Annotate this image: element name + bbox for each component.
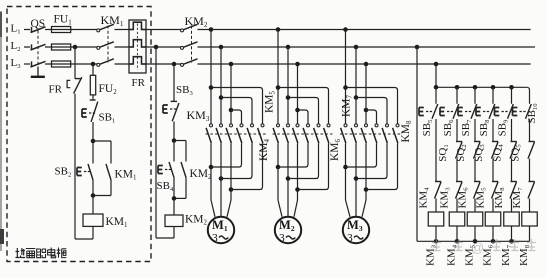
wire coil KM4 to bus [456, 226, 458, 241]
wire rail to SB8 [492, 87, 494, 104]
interlock contact KM4 (NC) [435, 182, 442, 199]
wire node D to KM2 coil [173, 198, 175, 215]
wire col5 to col2 group 1 [221, 143, 252, 178]
node group 3 L3 crossover [364, 108, 369, 113]
label KM4 (coil) [446, 244, 459, 266]
label SB2 [55, 166, 72, 179]
label L3 [11, 57, 22, 70]
fuse FU1 pole L1 [52, 27, 71, 33]
label FR (contact) [49, 84, 63, 96]
node L3 tap x297.5 [295, 62, 300, 67]
contactor KM4 main contact pole (col 6 group 1) [258, 124, 264, 143]
contactor KM6 main contact pole (col 6 group 2) [324, 124, 330, 143]
coil KM8 [522, 212, 538, 226]
contactor KM7 main contact pole (col 1 group 3) [341, 124, 347, 143]
label KM3 (interlock) [439, 187, 452, 209]
wire aux branch top [93, 141, 111, 164]
KM2 linkage (dashed) [191, 26, 193, 63]
contactor KM8 main contact pole (col 6 group 3) [393, 124, 399, 143]
label KM5 (group 2 fwd) [264, 90, 277, 113]
limit switch SQ5 (NC) [528, 142, 535, 159]
wire interlock to coil KM4 [456, 199, 458, 213]
node rail x436 [434, 85, 439, 90]
coil KM2 [165, 215, 183, 227]
wire KM2 aux branch bottom [174, 178, 186, 199]
disconnector QS pole L2 [31, 44, 46, 50]
wire interlock to coil KM6 [492, 199, 494, 213]
contactor KM5 main contact pole (col 3 group 2) [293, 124, 299, 143]
label SQ4 [492, 144, 505, 162]
label KM5 (interlock) [475, 187, 488, 209]
wire SQ1 to interlock [456, 159, 458, 182]
node L3 tap x366 [364, 62, 369, 67]
label SB1 [99, 112, 116, 125]
wire SB2 to node B [92, 180, 94, 196]
wire SB10 to SQ5 [529, 119, 531, 142]
node group 2 L1 crossover [276, 85, 281, 90]
coil KM5 [467, 212, 483, 226]
wire crossover L3 to col4 group 2 [298, 110, 309, 124]
pushbutton SB8 (NO) [476, 104, 495, 119]
node L2 tap x75 [73, 45, 78, 50]
contactor KM3 main contact pole (col 3 group 1) [226, 124, 232, 143]
label KM1 (main contacts) [101, 13, 124, 28]
node rail x511.5 [509, 85, 514, 90]
node L1 tap x278 [276, 27, 281, 32]
wire SB3 to node C [173, 122, 175, 141]
wire motor lead U group 1 [211, 200, 215, 217]
wire col1 down group 3 [345, 143, 347, 200]
svg-text:@: @ [471, 240, 484, 255]
pushbutton SB6 (NO) [440, 104, 459, 119]
wire col3 down group 1 [230, 143, 232, 200]
wire SB5 to interlock [435, 119, 437, 182]
wire coil KM6 to bus [492, 226, 494, 241]
pushbutton SB3 (stop, NC) [163, 101, 179, 121]
wire motor lead V group 3 [355, 200, 357, 217]
wire L1 feed group 1 [210, 30, 212, 125]
label QS [31, 18, 46, 30]
node rail x475 [473, 85, 478, 90]
node B (coil top) [91, 193, 96, 198]
wire phase L3 bus [24, 63, 531, 65]
wire interlock to coil KM5 [474, 199, 476, 213]
wire col3 down group 3 [365, 143, 367, 200]
label FR (heater) [132, 77, 146, 89]
wire control rail (top right) [436, 87, 530, 104]
wire crossover L3 to col4 group 1 [231, 110, 242, 124]
wire L2 feed group 3 [355, 47, 357, 124]
wire phase L2 bus [24, 46, 535, 48]
fuse FU1 pole L3 [52, 61, 71, 67]
contactor KM8 main contact pole (col 2 group 3) [351, 124, 357, 143]
node L3 tap x231 [229, 62, 234, 67]
FR NC contact (overload) [67, 77, 82, 93]
wire L3 feed group 3 [365, 64, 367, 124]
node group 1 L1 crossover [209, 85, 214, 90]
wire col3 down group 2 [297, 143, 299, 200]
pushbutton SB1 (stop, NC) [82, 100, 98, 122]
wire motor lead U group 2 [278, 200, 282, 217]
label SB6 [442, 119, 455, 136]
node group 3 L1 crossover [343, 85, 348, 90]
wire coil KM8 to bus [529, 226, 531, 241]
label SB4 [157, 180, 174, 193]
motor M1 (3-phase) [208, 217, 234, 245]
wire col2 down group 2 [287, 143, 289, 200]
wire L1 feed group 3 [345, 30, 347, 125]
wire rail to SB9 [511, 87, 513, 104]
watermark 知乎 @ (light gray) [432, 239, 536, 255]
wire col4 to col1 group 1 [211, 143, 242, 167]
contactor KM1 main contact L1 [97, 24, 114, 32]
coil KM3 [428, 212, 444, 226]
limit switch SQ4 (NC) [510, 142, 517, 159]
interlock contact KM7 (NC) [528, 182, 535, 199]
node bottom bus x493 [491, 239, 496, 244]
node bottom bus x511.5 [509, 239, 514, 244]
wire crossover L2 to col5 group 3 [356, 98, 387, 125]
node merge V group 3 [354, 176, 359, 181]
label SB10 [526, 103, 539, 124]
coil KM7 [504, 212, 520, 226]
text 地面配电柜 (cabinet name) [16, 248, 67, 258]
label KM1 (coil) [106, 216, 129, 229]
contactor KM6 main contact pole (col 2 group 2) [283, 124, 289, 143]
node merge W group 2 [295, 187, 300, 192]
wire aux branch bottom [93, 180, 111, 196]
contactor KM8 main contact pole (col 4 group 3) [372, 124, 378, 143]
label SB5 [421, 119, 434, 136]
wire col1 down group 2 [277, 143, 279, 200]
wire L3 feed group 1 [230, 64, 232, 124]
label KM6 (group 2 rev) [329, 138, 342, 161]
label KM8 (coil) [518, 244, 531, 266]
node rail x493 [491, 85, 496, 90]
wire col6 to col3 group 3 [366, 143, 398, 189]
wire crossover L1 to col6 group 1 [211, 88, 263, 125]
node L2 tap x156 [154, 45, 159, 50]
node L1 tap x211 [209, 27, 214, 32]
wire crossover L2 to col5 group 2 [288, 98, 319, 125]
wire KM2 coil to left rail [156, 227, 174, 239]
motor M2 (3-phase) [275, 217, 301, 245]
contactor KM5 main contact pole (col 1 group 2) [273, 124, 279, 143]
label KM5 (coil) [464, 244, 477, 266]
coil KM6 [485, 212, 501, 226]
interlock contact KM5 (NC) [492, 182, 499, 199]
contactor KM2 main contact L3 [181, 59, 198, 67]
wire L2 to FR contact [74, 47, 76, 79]
wire L2 feed group 2 [287, 47, 289, 124]
label KM8 (group 3 rev) [400, 120, 413, 143]
label FU1 [54, 14, 73, 27]
contactor KM7 main contact pole (col 3 group 3) [361, 124, 367, 143]
node L3 tap x93 [91, 62, 96, 67]
node merge U group 2 [276, 165, 281, 170]
QS linkage (dashed) [37, 31, 39, 67]
node C (SB4/KM2aux split) [172, 138, 177, 143]
label KM2 (main contacts) [185, 14, 208, 29]
wire col4 to col1 group 2 [278, 143, 308, 167]
wire col1 down group 1 [210, 143, 212, 200]
wire col5 to col2 group 2 [288, 143, 319, 178]
label SB9 [497, 119, 510, 136]
label KM3 (group 1 fwd) [187, 108, 210, 123]
label L1 [11, 23, 21, 36]
pushbutton SB4 (start, NO) [158, 141, 174, 178]
wire L2 left rail (KM2 circuit) [155, 47, 157, 238]
contactor KM1 main contact L2 [97, 42, 114, 50]
wire rail to SB6 [456, 87, 458, 104]
node bottom bus x457 [455, 239, 460, 244]
contactor KM3 main contact pole (col 1 group 1) [206, 124, 212, 143]
disconnector QS pole L3 [31, 61, 46, 67]
wire SB7 to SQ2 [474, 119, 476, 142]
node group 3 L2 crossover [354, 95, 359, 100]
node L1 tap x345.5 [343, 27, 348, 32]
node merge U group 1 [209, 165, 214, 170]
svg-text:FR: FR [132, 77, 146, 89]
wire coil KM7 to bus [511, 226, 513, 241]
node L2 tap x221 [219, 45, 224, 50]
label KM2 (coil) [185, 214, 208, 227]
coil KM4 [449, 212, 465, 226]
label KM8 (interlock) [493, 187, 506, 209]
pushbutton SB2 (start, NO) [77, 141, 93, 180]
wire SB4 to node D [173, 178, 175, 199]
contactor KM4 main contact pole (col 4 group 1) [237, 124, 243, 143]
svg-text:3: 3 [212, 233, 218, 245]
wire SQ5 to interlock [529, 159, 531, 182]
wire node B to KM1 coil [92, 196, 94, 215]
contactor KM7 main contact pole (col 5 group 3) [382, 124, 388, 143]
label KM4 (interlock) [418, 187, 431, 209]
wire L2 feed group 1 [220, 47, 222, 124]
motor M3 (3-phase) [343, 217, 369, 245]
pushbutton SB9 (NO) [495, 104, 514, 119]
label SB8 [478, 119, 491, 136]
wire col5 to col2 group 3 [356, 143, 387, 178]
wire FR contact down-left rail [74, 94, 76, 239]
node L2 tap x288 [286, 45, 291, 50]
node group 2 L2 crossover [286, 95, 291, 100]
label KM7 (group 3 fwd) [341, 94, 354, 117]
label KM3 (coil) [425, 244, 438, 266]
wire coil KM3 to bus [435, 226, 437, 241]
disconnector QS pole L1 [31, 27, 46, 33]
wire col6 to col3 group 1 [231, 143, 263, 189]
node L3 tap x174 [172, 62, 177, 67]
cabinet enclosure (dashed) 地面配电柜 [7, 7, 151, 262]
wire motor lead W group 2 [294, 200, 298, 217]
wire SB9 to SQ4 [511, 119, 513, 142]
wire crossover L1 to col6 group 3 [346, 88, 398, 125]
wire crossover L2 to col5 group 1 [221, 98, 252, 125]
svg-text:FR: FR [49, 84, 63, 96]
wire phase L1 bus [24, 29, 531, 31]
wire motor lead V group 2 [287, 200, 289, 217]
wire motor lead V group 1 [220, 200, 222, 217]
node rail x457 [455, 85, 460, 90]
contactor KM1 main contact L3 [97, 59, 114, 67]
pushbutton SB10 (NO) [513, 104, 532, 119]
label FU2 [99, 83, 118, 96]
label KM7 (interlock) [511, 187, 524, 209]
label KM4 (group 1 rev) [258, 138, 271, 161]
contactor KM3 main contact pole (col 5 group 1) [247, 124, 253, 143]
interlock contact KM3 (NC) [456, 182, 463, 199]
wire KM2 aux branch top [174, 141, 186, 162]
contactor KM1 auxiliary contact (NO) [106, 164, 111, 180]
contactor KM6 main contact pole (col 4 group 2) [303, 124, 309, 143]
wire L3 to FU2 [92, 64, 94, 75]
svg-text:3: 3 [279, 233, 285, 245]
wire SQ3 to interlock [492, 159, 494, 182]
group 3 contact linkage (dashed) [340, 133, 402, 135]
interlock contact KM6 (NC) [474, 182, 481, 199]
wire col4 to col1 group 3 [346, 143, 377, 167]
label KM6 (interlock) [457, 187, 470, 209]
node A (SB2/KM1aux split) [91, 139, 96, 144]
node L3 tap x436 [434, 62, 439, 67]
node group 1 L2 crossover [219, 95, 224, 100]
wire rail to SB7 [474, 87, 476, 104]
wire L3 feed group 2 [297, 64, 299, 124]
wire interlock to coil KM3 [435, 199, 437, 213]
wire SB8 to SQ3 [492, 119, 494, 142]
wire SB1 to node A [92, 122, 94, 141]
wire SQ4 to interlock [511, 159, 513, 182]
node merge V group 2 [286, 176, 291, 181]
wire col2 down group 1 [220, 143, 222, 200]
wire col6 to col3 group 2 [298, 143, 329, 189]
limit switch SQ2 (NC) [474, 142, 481, 159]
wire col2 down group 3 [355, 143, 357, 200]
node L2 tap x356 [354, 45, 359, 50]
limit switch SQ1 (NC) [456, 142, 463, 159]
wire interlock to coil KM8 [529, 199, 531, 213]
interlock contact KM8 (NC) [510, 182, 517, 199]
label L2 [11, 40, 21, 53]
label KM6 (coil) [482, 244, 495, 266]
wire crossover L1 to col6 group 2 [278, 88, 329, 125]
wire L2 return rail (right) [416, 47, 418, 241]
node bottom bus x436 [434, 239, 439, 244]
contactor KM2 auxiliary contact (NO) [181, 162, 186, 178]
node merge W group 3 [364, 187, 369, 192]
node merge V group 1 [219, 176, 224, 181]
wire SQ2 to interlock [474, 159, 476, 182]
contactor KM2 main contact L2 [181, 42, 198, 50]
label SB7 [460, 119, 473, 136]
pushbutton SB5 (NO) [419, 104, 438, 119]
label KM7 (coil) [500, 244, 513, 266]
wire SB6 to SQ1 [456, 119, 458, 142]
coil KM1 [83, 214, 103, 226]
node D (KM2 coil top) [172, 196, 177, 201]
wire L3 feed to rail [435, 64, 437, 87]
wire crossover L3 to col4 group 3 [366, 110, 377, 124]
fuse FU2 [90, 75, 95, 95]
label KM1 (aux) [115, 169, 138, 182]
group 1 contact linkage (dashed) [206, 133, 267, 135]
wire bottom bus (right) [417, 240, 530, 242]
node merge U group 3 [343, 165, 348, 170]
label SQ2 [455, 144, 468, 161]
wire L3 to SB3 [173, 64, 175, 101]
contactor KM5 main contact pole (col 5 group 2) [314, 124, 320, 143]
wire motor lead U group 3 [346, 200, 351, 217]
label KM2 (aux) [190, 168, 213, 181]
label SQ5 [510, 144, 523, 162]
wire L1 feed group 2 [277, 30, 279, 125]
node L2 tap x417 [415, 45, 420, 50]
thermal relay FR heater element [129, 20, 146, 73]
ground [31, 67, 45, 79]
label SQ1 [437, 144, 450, 161]
wire motor lead W group 1 [227, 200, 231, 217]
fuse FU1 pole L2 [52, 44, 71, 50]
node bottom bus x475 [473, 239, 478, 244]
group 2 contact linkage (dashed) [273, 133, 333, 135]
pushbutton SB7 (NO) [458, 104, 477, 119]
wire KM1 coil to bottom [75, 226, 93, 239]
wire FU2 to SB1 [92, 95, 94, 100]
label SB3 [176, 84, 193, 97]
node group 1 L3 crossover [229, 108, 234, 113]
scan artifact left edge [0, 11, 4, 251]
svg-text:3: 3 [347, 233, 353, 245]
contactor KM2 main contact L1 [181, 24, 198, 32]
node merge W group 1 [229, 187, 234, 192]
limit switch SQ3 (NC) [492, 142, 499, 159]
wire interlock to coil KM7 [511, 199, 513, 213]
node group 2 L3 crossover [295, 108, 300, 113]
wire motor lead W group 3 [362, 200, 366, 217]
label SQ3 [473, 144, 486, 162]
wire rail to SB5 [435, 87, 437, 104]
wire coil KM5 to bus [474, 226, 476, 241]
KM1 linkage (dashed) [107, 26, 109, 63]
contactor KM4 main contact pole (col 2 group 1) [216, 124, 222, 143]
